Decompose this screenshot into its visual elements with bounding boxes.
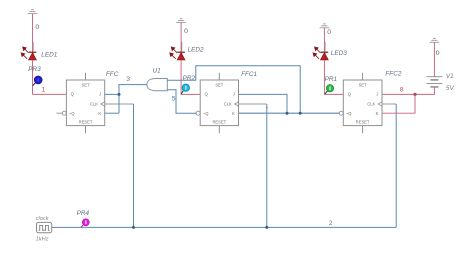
wire FFC1 CLK down to clock bus bbox=[266, 104, 268, 227]
probe PR1 bbox=[325, 85, 334, 94]
svg-text:Q: Q bbox=[71, 91, 74, 96]
op-amp U1 AND gate (mirrored, output left) bbox=[147, 79, 167, 91]
svg-text:0: 0 bbox=[436, 50, 440, 57]
svg-text:RESET: RESET bbox=[79, 119, 93, 124]
svg-text:SET: SET bbox=[82, 83, 90, 88]
svg-text:5: 5 bbox=[172, 96, 176, 103]
wire net0 ground to LED3 bbox=[323, 28, 325, 52]
svg-text:FFC2: FFC2 bbox=[385, 71, 401, 78]
clock source bbox=[37, 222, 52, 232]
battery V1 bbox=[426, 77, 442, 87]
svg-text:SET: SET bbox=[215, 83, 223, 88]
svg-text:5V: 5V bbox=[446, 85, 455, 92]
junction FFC2 ~Q branch bbox=[299, 112, 302, 115]
svg-text:3: 3 bbox=[126, 76, 130, 83]
wire clock bus net 2 bbox=[52, 226, 397, 228]
junction clock FFC bbox=[132, 226, 135, 229]
svg-text:0: 0 bbox=[327, 29, 331, 36]
svg-text:FFC: FFC bbox=[106, 71, 119, 78]
svg-text:0: 0 bbox=[184, 28, 188, 35]
ground GND4 top-right bbox=[430, 38, 440, 42]
svg-text:K: K bbox=[98, 111, 101, 116]
svg-text:8: 8 bbox=[400, 86, 404, 93]
probe PR2 bbox=[181, 84, 189, 94]
flip-flop FFC bbox=[57, 73, 105, 133]
svg-text:J: J bbox=[376, 91, 378, 96]
wire AND bottom input from FFC1 ~Q (net 5) bbox=[167, 90, 196, 114]
svg-text:0: 0 bbox=[35, 24, 39, 31]
svg-text:clock: clock bbox=[36, 216, 50, 222]
wire net0 ground to LED2 bbox=[180, 23, 182, 53]
wire LED1 to corner bbox=[32, 60, 34, 95]
wire AND top input from FFC2 ~Q net bbox=[167, 66, 300, 114]
LED LED1 bbox=[21, 42, 36, 60]
probe PR3 bbox=[33, 76, 43, 86]
wire net0 ground to LED1 bbox=[32, 14, 34, 53]
svg-text:J: J bbox=[233, 91, 235, 96]
svg-text:1: 1 bbox=[41, 86, 45, 93]
flip-flop FFC1 bbox=[196, 73, 238, 133]
junction FFC J bbox=[118, 93, 121, 96]
wire FFC1 J bbox=[239, 94, 288, 113]
svg-text:LED1: LED1 bbox=[41, 51, 57, 58]
svg-text:J: J bbox=[99, 91, 101, 96]
svg-text:~Q: ~Q bbox=[69, 111, 75, 116]
wire LED3 to corner to FFC2 Q bbox=[324, 60, 343, 95]
svg-text:SET: SET bbox=[359, 83, 367, 88]
svg-text:PR4: PR4 bbox=[77, 210, 90, 217]
svg-text:2: 2 bbox=[329, 220, 333, 227]
svg-text:V1: V1 bbox=[446, 73, 454, 80]
svg-text:CLK: CLK bbox=[367, 101, 375, 106]
svg-text:K: K bbox=[376, 111, 379, 116]
wire FFC J bbox=[105, 93, 119, 95]
svg-text:Q: Q bbox=[348, 91, 351, 96]
svg-text:FFC1: FFC1 bbox=[241, 71, 257, 78]
wire battery to FFC2 J (net 8) bbox=[382, 87, 434, 95]
LED LED2 bbox=[170, 42, 185, 60]
wire FFC K bbox=[105, 112, 119, 114]
wire FFC2 CLK down to clock bus bbox=[395, 104, 397, 227]
svg-text:PR3: PR3 bbox=[28, 66, 41, 73]
marker FFC1 CLK bbox=[266, 107, 268, 110]
wire battery branch to FFC2 K bbox=[382, 94, 415, 113]
svg-text:PR1: PR1 bbox=[325, 76, 338, 83]
wire net3 AND output to FFC J/K bbox=[119, 85, 147, 114]
probe PR4 bbox=[81, 219, 89, 228]
svg-text:LED2: LED2 bbox=[188, 46, 204, 53]
ground GND3 bbox=[320, 24, 330, 28]
LED LED3 bbox=[313, 42, 328, 60]
svg-text:~Q: ~Q bbox=[346, 111, 352, 116]
wire FFC2 CLK stub bbox=[382, 103, 396, 105]
svg-text:CLK: CLK bbox=[224, 101, 232, 106]
junction FFC1 JK bbox=[286, 112, 289, 115]
wire FFC1 CLK stub bbox=[239, 103, 267, 105]
svg-text:K: K bbox=[232, 111, 235, 116]
svg-text:~Q: ~Q bbox=[203, 111, 209, 116]
svg-text:Q: Q bbox=[205, 91, 208, 96]
wire LED2 to corner to FFC1 Q bbox=[181, 60, 200, 95]
wire net0 ground to battery bbox=[433, 42, 435, 76]
svg-text:RESET: RESET bbox=[356, 119, 370, 124]
svg-text:CLK: CLK bbox=[90, 101, 98, 106]
wire net1 corner to FFC Q bbox=[33, 93, 67, 95]
svg-text:RESET: RESET bbox=[212, 119, 226, 124]
wire FFC1 K to FFC2 ~Q bbox=[239, 112, 340, 114]
svg-text:U1: U1 bbox=[153, 68, 162, 75]
svg-text:1kHz: 1kHz bbox=[36, 236, 49, 242]
wire FFC CLK stub bbox=[105, 103, 134, 105]
wire FFC CLK down to clock bus bbox=[133, 104, 135, 227]
ground GND1 top-left bbox=[28, 10, 38, 14]
svg-text:LED3: LED3 bbox=[331, 50, 347, 57]
flip-flop FFC2 bbox=[339, 73, 382, 133]
ground GND2 middle bbox=[176, 19, 186, 23]
junction clock FFC1 bbox=[265, 226, 268, 229]
junction battery JK bbox=[413, 93, 416, 96]
